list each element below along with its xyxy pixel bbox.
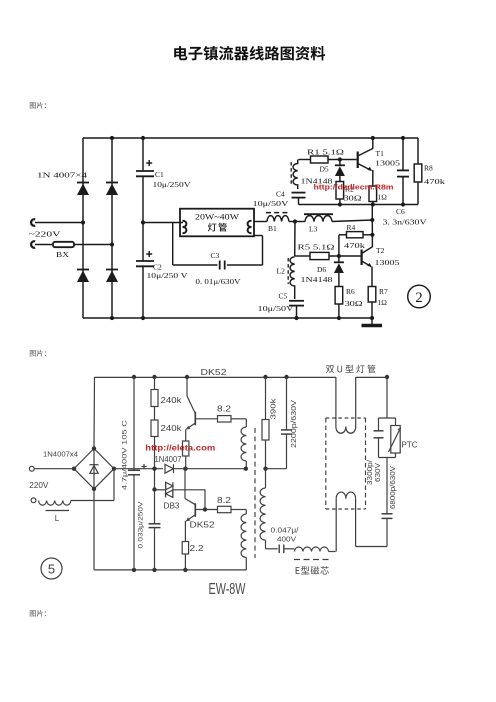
svg-text:R8: R8	[424, 164, 433, 173]
inductor L3 with core	[304, 214, 372, 221]
wire winding L1 branch	[299, 159, 311, 161]
wire input to bridge left	[34, 468, 74, 470]
resistor R2	[336, 182, 344, 205]
diode D2 (bridge)	[106, 183, 118, 196]
svg-text:R1 5.1Ω: R1 5.1Ω	[307, 148, 345, 157]
thermistor PTC	[389, 418, 401, 458]
svg-text:8.2: 8.2	[217, 405, 232, 414]
resistor R4	[339, 232, 373, 256]
terminal AC input lower	[31, 241, 35, 248]
capacitor C5	[289, 301, 304, 318]
svg-text:10μ/50V: 10μ/50V	[258, 304, 295, 313]
svg-text:R6: R6	[346, 287, 355, 296]
wire right branch join bottom	[379, 458, 396, 514]
lamp filament top	[336, 427, 356, 434]
wire bottom rail circuit2	[94, 569, 246, 571]
inductor B1	[254, 216, 306, 222]
svg-text:1N4007: 1N4007	[155, 455, 183, 464]
svg-text:DB3: DB3	[164, 502, 181, 511]
diode D1 (bridge)	[77, 183, 89, 196]
label 3300p/ 630V	[367, 460, 382, 485]
svg-text:EW-8W: EW-8W	[209, 581, 247, 598]
wire T1 collector to rail	[372, 138, 374, 149]
diode D6	[334, 256, 344, 287]
marker circled 5	[41, 558, 62, 579]
transistor T2 13005	[362, 247, 373, 267]
svg-text:C5: C5	[279, 292, 288, 301]
transformer primary winding W3	[260, 469, 278, 549]
transformer winding W2 (Q2 feedback)	[241, 510, 246, 570]
wire bridge bottom to bottom rail	[93, 489, 95, 570]
wire top rail circuit2	[95, 376, 336, 378]
node fuse-bridge junction	[110, 242, 114, 246]
winding L2 with core dashes	[288, 257, 295, 299]
capacitor 4.7μ/400V electrolytic	[128, 377, 147, 570]
node B1-L3 junction	[293, 219, 297, 223]
node R1-D5 junction	[338, 157, 342, 161]
label 0.047μ/ 400V	[271, 526, 299, 544]
label 图片： (3)	[30, 610, 46, 617]
svg-text:http://dzdlecm.R8m: http://dzdlecm.R8m	[314, 183, 394, 192]
svg-text:400V: 400V	[277, 535, 296, 544]
resistor R5	[295, 252, 362, 259]
wire left vertical (bridge branch A)	[82, 138, 84, 318]
resistor 240k first	[151, 377, 158, 407]
svg-text:20W~40W: 20W~40W	[195, 213, 240, 222]
svg-text:3. 3n/630V: 3. 3n/630V	[383, 218, 428, 227]
resistor R3	[369, 186, 377, 205]
svg-text:1N4007x4: 1N4007x4	[43, 450, 78, 459]
svg-text:470k: 470k	[424, 177, 445, 186]
diode D4 (bridge)	[106, 270, 118, 283]
lamp box 20W~40W	[180, 209, 254, 237]
svg-text:C3: C3	[211, 251, 220, 260]
svg-text:http://eleta.com: http://eleta.com	[145, 444, 215, 453]
inductor L input filter	[39, 469, 115, 511]
svg-text:5: 5	[48, 562, 55, 577]
svg-text:4.7μ/400V 105 C: 4.7μ/400V 105 C	[122, 420, 129, 490]
label 灯管	[208, 223, 227, 232]
marker circled 2	[408, 285, 431, 308]
capacitor 2200p/630V	[266, 377, 293, 469]
svg-text:DK52: DK52	[190, 521, 216, 530]
node winding W1 mid rail junction	[244, 467, 248, 471]
node mid rail junction 240k column	[152, 467, 156, 471]
lamp electrode left	[183, 221, 187, 233]
resistor Q1 emitter (unlabeled)	[183, 429, 189, 468]
svg-text:1Ω: 1Ω	[378, 193, 388, 202]
wire AC upper to bridge	[35, 220, 85, 224]
node output junctions	[370, 218, 374, 237]
diode D3 (bridge)	[77, 270, 89, 283]
svg-text:L3: L3	[309, 225, 318, 234]
capacitor C3	[220, 261, 225, 270]
svg-text:10μ/250 V: 10μ/250 V	[147, 271, 189, 280]
resistor R8	[414, 138, 422, 205]
capacitor C2	[136, 251, 154, 266]
terminal input upper c2	[29, 466, 34, 471]
capacitor C4	[292, 193, 306, 205]
resistor 390k	[262, 377, 269, 469]
lamp stem right	[355, 377, 357, 427]
svg-text:D5: D5	[320, 165, 329, 174]
wire mid rail	[114, 468, 163, 470]
svg-text:220V: 220V	[29, 481, 49, 490]
lamp electrode right	[248, 221, 252, 233]
svg-text:240k: 240k	[161, 396, 183, 405]
svg-text:3300p/: 3300p/	[367, 460, 374, 485]
node bottom rail junctions c2	[132, 568, 188, 572]
wire lamp left stem bottom	[335, 499, 337, 552]
svg-text:L: L	[55, 514, 60, 523]
svg-text:C4: C4	[276, 190, 285, 199]
wire output column	[371, 205, 373, 248]
svg-text:30Ω: 30Ω	[345, 299, 364, 308]
node top rail junctions	[110, 136, 405, 140]
terminal input lower c2	[31, 498, 36, 503]
resistor R1	[311, 156, 357, 163]
resistor 8.2 (Q1 base)	[218, 416, 247, 422]
svg-text:L2: L2	[277, 267, 286, 276]
wire node to lamp	[141, 220, 183, 224]
svg-text:1Ω: 1Ω	[378, 298, 388, 307]
lamp filament bottom	[336, 492, 355, 499]
inductor B1 core dashes	[266, 212, 290, 214]
node top rail junctions c2	[132, 375, 389, 379]
resistor 8.2 (Q2 base)	[218, 506, 247, 512]
svg-text:PTC: PTC	[402, 441, 418, 450]
transformer core dashed	[254, 428, 256, 558]
svg-text:BX: BX	[56, 250, 70, 259]
resistor 2.2 (Q2 emitter)	[182, 521, 188, 570]
capacitor 0.033μ/250V	[149, 524, 161, 570]
svg-text:2: 2	[415, 290, 422, 306]
svg-text:8.2: 8.2	[217, 496, 232, 505]
node bottom rail junctions	[110, 316, 374, 320]
wire top rail right segment	[356, 376, 387, 378]
node bus junctions	[338, 202, 405, 206]
title 电子镇流器线路图资料	[174, 46, 325, 60]
label 图片： (1)	[30, 102, 46, 109]
transformer output winding W4 horizontal	[295, 547, 336, 552]
svg-text:240k: 240k	[161, 424, 183, 433]
transistor T1 13005	[358, 149, 373, 171]
svg-text:R7: R7	[379, 287, 388, 296]
wire C1-C2 column	[142, 138, 144, 318]
ground symbol	[362, 318, 383, 326]
svg-text:DK52: DK52	[201, 368, 228, 377]
wire emitter bus y204	[299, 204, 419, 206]
svg-text:10μ/250V: 10μ/250V	[153, 180, 192, 189]
wire C3 loop left	[173, 223, 218, 266]
node bridge vertices	[72, 446, 116, 491]
svg-text:R5 5.1Ω: R5 5.1Ω	[298, 243, 336, 252]
diode D5	[335, 160, 345, 182]
svg-text:0.033μ/250V: 0.033μ/250V	[137, 501, 144, 549]
wire bridge branch B vertical	[111, 138, 113, 318]
lamp tube dashed outline	[326, 418, 366, 509]
svg-text:C1: C1	[155, 170, 164, 179]
wire C3 loop right	[227, 236, 263, 266]
terminal AC input upper	[31, 219, 35, 226]
wire L2 drop from B1-L3 junction	[294, 222, 296, 257]
capacitor C6	[397, 138, 409, 205]
core E dashed horizontal	[294, 559, 330, 561]
svg-text:1N4148: 1N4148	[301, 275, 333, 284]
svg-text:6800p/630V: 6800p/630V	[390, 466, 397, 509]
svg-text:B1: B1	[268, 224, 277, 233]
wire top rail circuit1	[83, 137, 418, 139]
svg-text:R4: R4	[347, 223, 356, 232]
node mid rail junction emitter column	[183, 467, 187, 471]
svg-text:1N 4007×4: 1N 4007×4	[37, 171, 87, 180]
node R5-D6 junction	[337, 254, 341, 258]
capacitor 3300p/630V	[374, 418, 384, 458]
label 图片： (2)	[30, 350, 46, 357]
svg-text:13005: 13005	[375, 258, 400, 267]
svg-text:470k: 470k	[344, 241, 365, 250]
svg-text:630V: 630V	[375, 463, 382, 482]
wire right branch top	[379, 377, 396, 418]
svg-text:T2: T2	[376, 246, 385, 255]
diac DB3	[155, 482, 206, 497]
node Q2 base node	[203, 507, 207, 511]
capacitor C1	[136, 160, 154, 176]
winding L1 (feedback) with core dashes	[291, 160, 298, 190]
node 390k mid rail junction	[263, 467, 267, 471]
transformer winding W1 (Q1 feedback)	[241, 419, 246, 469]
svg-text:390k: 390k	[269, 398, 278, 420]
capacitor 6800p/630V	[382, 514, 393, 547]
lamp stem left	[335, 377, 337, 427]
wire rail corner to bridge top	[93, 377, 96, 449]
resistor R7	[368, 267, 376, 318]
resistor 240k second	[151, 407, 158, 524]
wire DB3 to Q2 base node	[204, 490, 206, 510]
fuse BX	[35, 242, 112, 247]
bridge rectifier diamond 1N4007x4	[74, 449, 114, 489]
wire lamp right stem bottom	[356, 499, 387, 547]
transistor Q1 DK52	[186, 377, 218, 430]
wire T1 emitter column	[372, 170, 374, 186]
svg-text:0.047μ/: 0.047μ/	[271, 526, 299, 535]
svg-text:2.2: 2.2	[190, 544, 205, 553]
svg-text:13005: 13005	[375, 159, 400, 168]
label 双U型灯管	[326, 365, 376, 373]
svg-text:0. 01μ/630V: 0. 01μ/630V	[196, 277, 242, 286]
svg-text:C6: C6	[396, 207, 405, 216]
svg-text:T1: T1	[376, 149, 385, 158]
node DB3 junction on column	[152, 487, 156, 491]
capacitor 0.047μ/400V	[279, 545, 294, 554]
resistor R6	[335, 287, 343, 319]
transistor Q2 DK52	[185, 469, 218, 522]
label E型磁芯	[296, 566, 329, 574]
svg-text:D6: D6	[317, 265, 326, 274]
diode 1N4007 on mid rail	[165, 464, 246, 473]
svg-text:10μ/50V: 10μ/50V	[253, 199, 290, 208]
wire bottom rail circuit1	[83, 317, 374, 319]
svg-text:30Ω: 30Ω	[344, 194, 363, 203]
svg-text:~220V: ~220V	[29, 230, 62, 239]
svg-text:2200p/630V: 2200p/630V	[289, 400, 298, 448]
